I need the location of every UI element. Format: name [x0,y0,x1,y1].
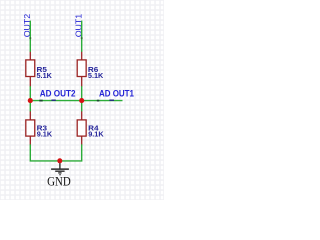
ground bar 3 [58,172,61,174]
R4 pin 1 [81,111,83,120]
R3 pin 2 [29,136,31,144]
resistor R5 [26,52,53,87]
R4 body [77,120,86,136]
wire left mid vertical [29,101,31,112]
port OUT1 anchor mark [81,37,83,39]
ground stem [59,161,61,169]
wire right mid vertical [81,101,83,112]
resistor R6 [77,52,104,87]
R5 pin 2 [29,77,31,87]
R6 pin 2 [81,77,83,87]
R3 pin 1 [29,111,31,120]
svg-text:9.1K: 9.1K [37,129,53,138]
resistor R4 [77,111,104,144]
R6 pin 1 [81,52,83,60]
ground anchor dot [59,174,61,175]
R5 body [26,60,35,77]
ground bar 2 [55,170,64,172]
svg-text:AD OUT2: AD OUT2 [40,89,76,99]
svg-text:5.1K: 5.1K [37,71,53,80]
junction GND [57,158,62,163]
net label AD_OUT1 underscore [109,100,114,101]
net label AD_OUT2 underscore [51,100,55,101]
wire R5 to junction [29,86,31,100]
wire R6 to junction [81,86,83,100]
junction left [28,98,33,103]
resistor R3 [26,111,53,144]
ground bar 1 [51,168,69,170]
svg-text:5.1K: 5.1K [88,71,104,80]
ground [47,161,71,189]
svg-text:AD OUT1: AD OUT1 [99,89,134,99]
svg-text:GND: GND [47,174,71,189]
port OUT2 anchor mark [29,37,31,39]
wire bottom U shape [30,144,81,161]
svg-text:9.1K: 9.1K [88,129,104,138]
R6 body [77,60,86,77]
wire OUT1 vertical [81,21,83,52]
R4 pin 2 [81,136,83,144]
junction right [79,98,84,103]
wire OUT2 vertical [29,21,31,52]
wire AD_OUT horizontal [30,100,122,102]
R5 pin 1 [29,52,31,60]
net label AD_OUT1 anchor mark [97,100,100,102]
net label AD_OUT2 anchor mark [39,100,42,102]
R3 body [26,120,35,136]
